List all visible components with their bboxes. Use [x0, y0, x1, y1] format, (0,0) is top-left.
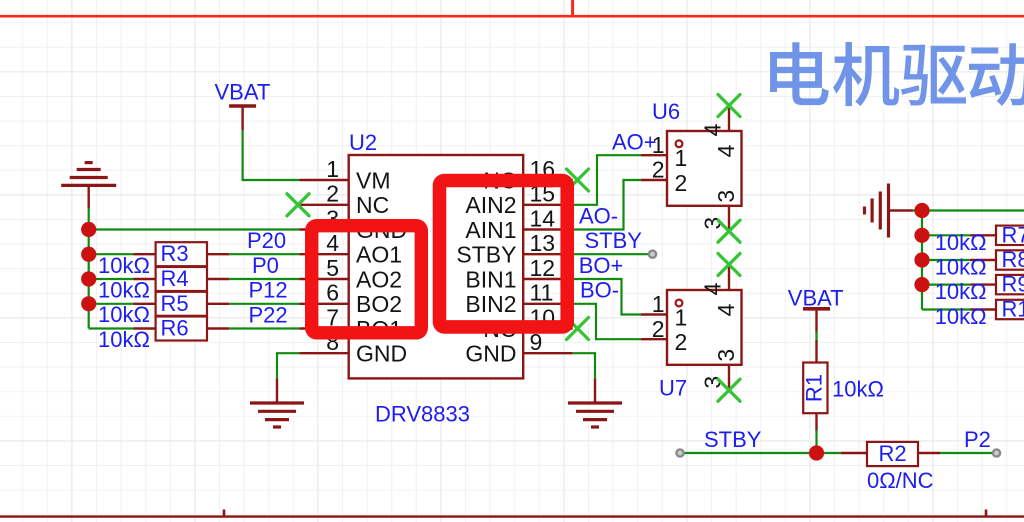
svg-text:10kΩ: 10kΩ	[935, 304, 987, 329]
wire	[229, 303, 299, 305]
svg-text:R1: R1	[802, 374, 827, 402]
power flag VBAT (right)	[788, 285, 844, 333]
junction	[81, 222, 96, 237]
U2 pin 3	[300, 205, 408, 243]
svg-text:AIN2: AIN2	[465, 192, 516, 218]
wire to R9	[922, 284, 971, 286]
svg-text:AO1: AO1	[356, 242, 402, 268]
resistor R6 10kΩ	[98, 316, 229, 353]
svg-text:R8: R8	[1002, 247, 1024, 272]
svg-text:VM: VM	[356, 167, 391, 193]
svg-text:STBY: STBY	[456, 242, 516, 268]
U2 pin 16	[483, 156, 572, 194]
wire to R5	[89, 303, 134, 305]
svg-text:STBY: STBY	[585, 228, 643, 253]
U2 pin 2	[300, 181, 390, 219]
svg-text:BO-: BO-	[580, 278, 619, 303]
U7 pin 4 (top)	[700, 265, 740, 316]
ground (below U2 left)	[250, 378, 304, 427]
svg-text:P22: P22	[249, 303, 288, 328]
ground (top left)	[61, 163, 116, 209]
svg-text:AO+: AO+	[612, 129, 657, 154]
U7 pin 2	[641, 316, 687, 355]
wire	[229, 327, 299, 329]
wire BO- net: U2 pin 11 to U7 pin 2	[573, 304, 641, 339]
ground (below U2 right)	[568, 378, 622, 427]
wire AO- net: U2 pin 14 to U6 pin 2	[573, 180, 641, 230]
svg-text:BO+: BO+	[579, 253, 624, 278]
svg-text:U2: U2	[349, 130, 377, 155]
U2 pin 15	[465, 181, 572, 219]
wire ground to bus	[912, 209, 1024, 211]
svg-text:4: 4	[713, 303, 739, 316]
wire row pin3	[89, 228, 300, 230]
wire U2 pin 8 to ground	[277, 353, 300, 378]
no-connect X on U2 pin 2	[287, 194, 309, 216]
svg-text:AIN1: AIN1	[465, 217, 516, 243]
svg-text:4: 4	[326, 230, 339, 256]
wire to R7	[922, 234, 971, 236]
svg-text:1: 1	[652, 291, 665, 317]
U2 pin 9	[465, 329, 572, 367]
wire to R10	[922, 308, 971, 310]
svg-text:BIN1: BIN1	[465, 266, 516, 292]
connector U6 body	[667, 131, 742, 206]
svg-text:VBAT: VBAT	[788, 285, 844, 310]
U2 pin 14	[465, 205, 572, 243]
svg-text:4: 4	[700, 123, 726, 136]
svg-text:10kΩ: 10kΩ	[98, 253, 150, 278]
svg-text:4: 4	[713, 144, 739, 157]
wire VBAT to R1	[815, 331, 817, 341]
wire ground bus vertical	[88, 208, 90, 329]
resistor R9 10kΩ	[935, 272, 1024, 305]
U6 pin 2	[641, 157, 687, 197]
svg-text:10kΩ: 10kΩ	[832, 377, 884, 402]
U2 pin 11	[465, 280, 572, 318]
connector U7 body	[667, 290, 742, 365]
U2 pin 13	[456, 230, 572, 268]
wire R1 to STBY net	[815, 430, 817, 453]
svg-text:R5: R5	[160, 291, 188, 316]
svg-text:2: 2	[652, 316, 665, 342]
svg-text:3: 3	[713, 349, 739, 362]
svg-text:11: 11	[530, 280, 554, 306]
U2 pin 12	[465, 255, 572, 293]
wire to R3	[89, 253, 134, 255]
junction	[81, 296, 96, 311]
junction (ground tap)	[914, 203, 929, 218]
U6 pin 3 (bottom)	[700, 190, 740, 231]
U2 pin 5	[300, 255, 403, 293]
U6 pin 1	[641, 132, 687, 171]
wire	[229, 253, 299, 255]
no-connect X on U7 pin 4	[718, 254, 740, 276]
wire STBY horizontal	[683, 452, 841, 454]
U2 pin 6	[300, 280, 403, 318]
svg-text:GND: GND	[356, 341, 407, 367]
svg-text:1: 1	[675, 145, 688, 171]
wire	[229, 278, 299, 280]
junction	[81, 247, 96, 262]
junction STBY/R1/R2	[809, 445, 824, 460]
svg-text:12: 12	[530, 255, 556, 281]
resistor R1 10kΩ	[802, 340, 884, 431]
svg-text:GND: GND	[465, 341, 516, 367]
svg-text:R10: R10	[1002, 297, 1024, 322]
svg-text:10kΩ: 10kΩ	[98, 327, 150, 352]
svg-text:BIN2: BIN2	[465, 291, 516, 317]
svg-text:STBY: STBY	[704, 427, 762, 452]
svg-text:10kΩ: 10kΩ	[935, 230, 987, 255]
wire U2 pin 9 to ground	[573, 353, 595, 378]
svg-text:14: 14	[530, 205, 556, 231]
annotation marker box (right pin names)	[440, 181, 568, 327]
wire to R8	[922, 259, 971, 261]
svg-text:2: 2	[652, 157, 665, 183]
U2 pin 4	[300, 230, 403, 268]
resistor R3 10kΩ	[98, 241, 229, 278]
svg-text:2: 2	[675, 170, 688, 196]
junction	[914, 277, 929, 292]
svg-text:R4: R4	[160, 266, 188, 291]
svg-text:2: 2	[326, 181, 339, 207]
svg-text:10kΩ: 10kΩ	[98, 302, 150, 327]
wire to R4	[89, 278, 134, 280]
svg-text:P20: P20	[247, 228, 286, 253]
svg-text:R3: R3	[160, 241, 188, 266]
svg-text:BO2: BO2	[356, 291, 402, 317]
junction	[81, 271, 96, 286]
svg-text:2: 2	[675, 329, 688, 355]
U2 pin 7	[300, 304, 403, 342]
svg-text:5: 5	[326, 255, 339, 281]
wire to R6	[89, 327, 134, 329]
no-connect X on U7 pin 3	[718, 379, 740, 401]
wire R2 to P2	[940, 452, 993, 454]
U2 pin 8	[300, 329, 408, 367]
wire right bus vertical	[921, 211, 923, 310]
svg-text:P12: P12	[249, 278, 288, 303]
U6 pin 4 (top)	[700, 106, 740, 157]
svg-text:AO-: AO-	[579, 204, 618, 229]
no-connect X on U6 pin 3	[718, 220, 740, 242]
svg-text:13: 13	[530, 230, 556, 256]
svg-text:R7: R7	[1002, 222, 1024, 247]
wire BO+ net: U2 pin 12 to U7 pin 1	[573, 279, 641, 315]
svg-text:4: 4	[700, 282, 726, 295]
svg-text:P2: P2	[964, 427, 991, 452]
resistor R8 10kΩ	[935, 247, 1024, 280]
U2 pin 10	[483, 304, 572, 342]
svg-text:1: 1	[652, 132, 665, 158]
power flag VBAT (left)	[215, 80, 271, 131]
svg-text:1: 1	[675, 305, 688, 331]
U7 pin 1	[641, 291, 687, 331]
no-connect X on U2 pin 16	[567, 169, 589, 191]
svg-text:U6: U6	[652, 99, 680, 124]
svg-text:AO2: AO2	[356, 266, 402, 292]
svg-text:VBAT: VBAT	[215, 80, 271, 105]
resistor R7 10kΩ	[935, 222, 1024, 255]
op-amp U2 DRV8833 body	[349, 155, 524, 378]
svg-text:R2: R2	[878, 441, 906, 466]
ground (right, rotated)	[865, 184, 914, 238]
wire VBAT to U2 pin 1	[243, 130, 300, 180]
wire STBY stub from U2 pin 13	[573, 253, 649, 255]
svg-text:P0: P0	[252, 253, 279, 278]
svg-text:10kΩ: 10kΩ	[98, 278, 150, 303]
no-connect X on U2 pin 10	[567, 318, 589, 340]
junction	[914, 252, 929, 267]
unconnected end marker (P2)	[993, 449, 1000, 456]
svg-text:U7: U7	[659, 376, 687, 401]
svg-text:1: 1	[326, 156, 339, 182]
U2 pin 1	[300, 156, 391, 194]
svg-text:0Ω/NC: 0Ω/NC	[867, 468, 934, 493]
resistor R10 10kΩ	[935, 297, 1024, 330]
svg-text:3: 3	[713, 190, 739, 203]
unconnected end marker (STBY left)	[676, 449, 683, 456]
svg-text:R6: R6	[160, 316, 188, 341]
junction	[914, 228, 929, 243]
svg-text:DRV8833: DRV8833	[375, 402, 470, 427]
title text 电机驱动	[770, 42, 1024, 106]
resistor R4 10kΩ	[98, 266, 229, 303]
annotation marker box (left pins)	[312, 226, 422, 333]
svg-text:R9: R9	[1002, 272, 1024, 297]
svg-text:10kΩ: 10kΩ	[935, 279, 987, 304]
svg-text:6: 6	[326, 280, 339, 306]
resistor R2 0Ω/NC	[841, 441, 940, 493]
svg-text:NC: NC	[356, 192, 389, 218]
svg-text:10kΩ: 10kΩ	[935, 255, 987, 280]
resistor R5 10kΩ	[98, 291, 229, 327]
unconnected end marker STBY	[649, 251, 656, 258]
U7 pin 3 (bottom)	[700, 349, 740, 390]
wire AO+ net: U2 pin 15 to U6 pin 1	[573, 155, 641, 205]
no-connect X on U6 pin 4	[718, 95, 740, 117]
